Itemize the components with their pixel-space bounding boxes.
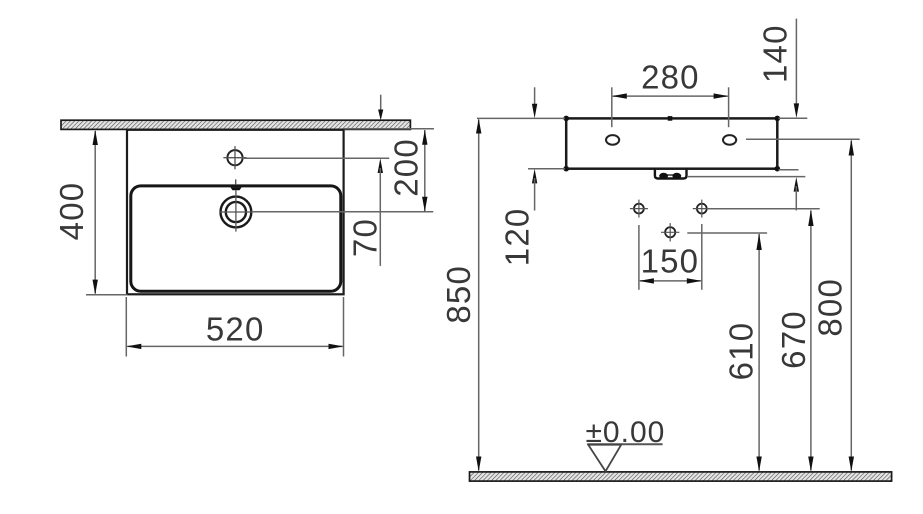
fixing hole leader <box>746 138 860 140</box>
centre hole leader <box>687 232 767 234</box>
dim 70 <box>347 95 384 266</box>
dim 120 <box>498 87 537 266</box>
dim 140 <box>757 19 799 211</box>
svg-text:670: 670 <box>775 310 812 369</box>
svg-text:280: 280 <box>641 58 700 95</box>
svg-text:610: 610 <box>722 322 759 381</box>
basin bowl (plan, rounded) <box>131 186 341 291</box>
faucet leader <box>243 157 389 159</box>
svg-text:70: 70 <box>347 218 384 257</box>
extension lines around basin <box>477 117 565 119</box>
dim 850 <box>440 119 482 472</box>
svg-text:140: 140 <box>757 24 794 83</box>
siphon bracket <box>655 169 687 179</box>
svg-text:200: 200 <box>387 138 424 197</box>
svg-text:150: 150 <box>641 243 700 280</box>
wall bar (hatched) <box>61 120 410 129</box>
dim 610 <box>722 233 762 471</box>
overflow mark <box>230 187 241 190</box>
siphon leader <box>687 176 805 178</box>
tap hole leader <box>708 208 819 210</box>
svg-text:850: 850 <box>440 265 477 324</box>
dim 800 <box>812 139 854 471</box>
basin front rect <box>566 118 777 168</box>
corner dots <box>563 116 569 122</box>
svg-text:400: 400 <box>53 182 90 241</box>
fixing holes <box>606 135 619 145</box>
floor bar (hatched) <box>470 472 892 481</box>
dim 670 <box>775 210 814 472</box>
svg-text:800: 800 <box>812 278 849 337</box>
wall bottom extension <box>344 128 434 130</box>
basin outer rect (plan) <box>127 130 344 294</box>
svg-text:520: 520 <box>206 311 265 348</box>
faucet hole (plan) <box>223 146 246 169</box>
level mark ±0.00 <box>585 416 665 471</box>
dim 520 <box>126 297 343 357</box>
dim 150 <box>639 224 702 290</box>
svg-text:120: 120 <box>498 208 535 267</box>
centerline dash above drain <box>235 179 237 184</box>
dim 400 <box>53 130 127 295</box>
dim 200 <box>387 130 427 212</box>
drain leader <box>252 211 434 213</box>
drain (plan) <box>220 190 253 231</box>
tap holes <box>630 200 711 242</box>
dim 280 <box>612 58 729 127</box>
